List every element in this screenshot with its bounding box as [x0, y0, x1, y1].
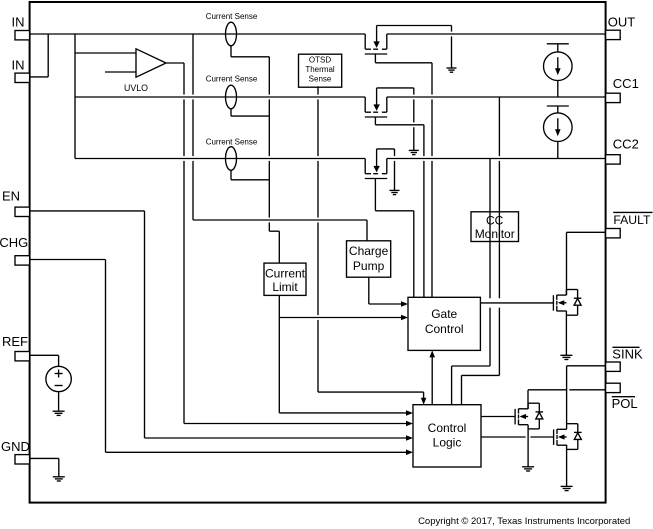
- pin FAULT: [606, 212, 653, 238]
- wire current sense 2 output: [231, 109, 269, 116]
- wire OUT FET body to Gate Control: [431, 63, 433, 297]
- svg-text:IN: IN: [12, 15, 25, 30]
- wire EN to Control Logic: [30, 211, 413, 441]
- svg-text:Current Sense: Current Sense: [206, 138, 258, 147]
- svg-text:IN: IN: [12, 58, 25, 73]
- pin IN (top): [12, 15, 30, 40]
- ground (FAULT FET source): [560, 311, 572, 360]
- svg-text:POL: POL: [612, 396, 638, 411]
- wire IN pin2 to top rail: [30, 34, 49, 77]
- block Charge Pump: [347, 241, 391, 277]
- svg-text:OTSD: OTSD: [309, 55, 331, 64]
- pin CC2: [606, 137, 639, 165]
- svg-text:Monitor: Monitor: [475, 227, 515, 241]
- transistor pass FET OUT: [365, 26, 452, 63]
- svg-text:Thermal: Thermal: [305, 65, 335, 74]
- wire current sense 3 output: [231, 170, 269, 180]
- svg-text:GND: GND: [1, 439, 30, 454]
- wire Charge Pump to Gate Control: [369, 277, 408, 307]
- ground (CC2 FET gate): [390, 149, 400, 195]
- wire CC2 sense to Control Logic: [452, 159, 490, 405]
- pin IN (second): [12, 58, 30, 83]
- wire Control Logic to SINK FET gate: [481, 436, 554, 438]
- block Current Limit: [264, 263, 306, 295]
- current sense 2 (CC1 path): [206, 75, 258, 109]
- wire UVLO input 1: [75, 52, 136, 54]
- block OTSD Thermal Sense: [299, 54, 342, 87]
- wire current sense summing bus: [269, 57, 279, 263]
- pin REF: [2, 334, 30, 361]
- wire CC2 rail: [75, 158, 606, 160]
- svg-text:UVLO: UVLO: [124, 83, 148, 93]
- wire current sense 1 output: [231, 46, 269, 57]
- pin CC1: [606, 76, 639, 103]
- svg-text:SINK: SINK: [612, 347, 643, 362]
- svg-text:OUT: OUT: [608, 14, 636, 29]
- wire UVLO input 2: [105, 71, 136, 73]
- pin CHG: [0, 235, 30, 265]
- wire REF to voltage source: [30, 355, 59, 366]
- svg-text:CC2: CC2: [613, 137, 639, 152]
- svg-text:Pump: Pump: [353, 259, 385, 273]
- wire IN rail to OUT (top rail): [30, 33, 606, 35]
- svg-text:Control: Control: [425, 322, 464, 336]
- wire IN bus vertical: [74, 34, 76, 159]
- wire POL pin to FET: [528, 390, 606, 409]
- transistor POL FET: [515, 403, 543, 429]
- svg-text:Current: Current: [265, 266, 306, 280]
- svg-text:Charge: Charge: [349, 244, 389, 258]
- wire IN to Charge Pump: [193, 34, 367, 241]
- wire Control Logic to Gate Control: [429, 350, 435, 404]
- svg-text:Copyright © 2017, Texas Instru: Copyright © 2017, Texas Instruments Inco…: [418, 516, 630, 527]
- pin SINK: [606, 347, 643, 372]
- current source CC2: [544, 106, 573, 159]
- svg-text:Control: Control: [428, 421, 467, 435]
- svg-text:CC1: CC1: [613, 76, 639, 91]
- block CC Monitor: [471, 212, 519, 242]
- wire CC1 rail: [75, 96, 606, 98]
- wire SINK pin to FET: [567, 366, 606, 424]
- wire FAULT pin to FET: [567, 232, 606, 295]
- transistor pass FET CC2: [365, 149, 414, 211]
- wire CC1 FET body to Gate Control: [423, 125, 425, 297]
- ground (OUT FET gate): [447, 26, 457, 73]
- current sense 3 (CC2 path): [206, 138, 258, 171]
- label CC Monitor: [475, 214, 515, 242]
- wire Current Limit to Gate Control: [279, 295, 408, 413]
- current source CC1: [544, 44, 573, 97]
- pin POL: [606, 383, 638, 411]
- copyright note: [418, 516, 630, 527]
- ground (SINK FET source): [561, 445, 573, 491]
- transistor SINK FET: [554, 424, 582, 450]
- op-amp UVLO: [124, 49, 166, 93]
- block Control Logic: [413, 405, 481, 467]
- svg-text:CHG: CHG: [0, 235, 28, 250]
- svg-text:Logic: Logic: [433, 436, 462, 450]
- ground (REF source): [53, 392, 65, 416]
- ground (POL FET source): [522, 425, 534, 471]
- wire CHG to Control Logic: [30, 260, 413, 456]
- current sense 1 (OUT path): [206, 12, 258, 46]
- transistor pass FET CC1: [365, 88, 424, 125]
- wire OTSD to Control Logic: [318, 86, 426, 404]
- svg-text:Current Sense: Current Sense: [206, 12, 258, 21]
- wire UVLO output to Control Logic: [166, 63, 413, 426]
- wire Current Limit to Control Logic: [279, 410, 413, 416]
- voltage source REF: [46, 366, 71, 391]
- ground (GND pin): [30, 458, 65, 481]
- wire CC1 sense to Control Logic: [462, 97, 500, 405]
- svg-text:Sense: Sense: [309, 74, 332, 83]
- block Gate Control: [408, 297, 480, 350]
- svg-text:Current Sense: Current Sense: [206, 75, 258, 84]
- transistor FAULT FET: [553, 290, 581, 316]
- wire CC2 FET body to Gate Control: [413, 211, 415, 297]
- svg-text:FAULT: FAULT: [613, 213, 651, 227]
- svg-text:CC: CC: [486, 214, 504, 228]
- svg-text:Gate: Gate: [431, 307, 457, 321]
- pin GND: [1, 439, 30, 464]
- wire Gate Control to FAULT FET gate: [480, 302, 553, 304]
- svg-text:Limit: Limit: [272, 280, 298, 294]
- pin EN: [2, 189, 30, 217]
- ground (CC1 FET gate): [409, 88, 419, 155]
- wire Control Logic to POL FET gate: [481, 416, 515, 418]
- svg-text:REF: REF: [2, 334, 28, 349]
- pin OUT: [606, 14, 636, 39]
- svg-text:EN: EN: [2, 189, 20, 204]
